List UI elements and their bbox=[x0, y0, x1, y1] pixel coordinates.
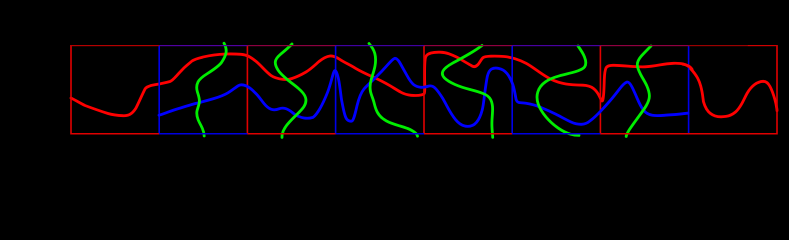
red curve overlay crossing x=688 line bbox=[682, 64, 693, 70]
vertical line x=600 red bbox=[600, 45, 602, 135]
vertical line x=335 blue bbox=[335, 45, 337, 135]
blue signal curve bbox=[159, 58, 688, 126]
vertical line x=71 red bbox=[70, 45, 72, 135]
box borders: bottom segments (bright) bbox=[71, 133, 159, 135]
green stroke 5 bbox=[537, 46, 586, 135]
vertical line x=777 red bbox=[776, 45, 778, 135]
green stroke 4 bbox=[442, 46, 492, 138]
green stroke 1 bbox=[197, 43, 226, 136]
vertical line x=512 blue bbox=[511, 45, 513, 135]
green stroke 3 bbox=[369, 44, 418, 137]
vertical line x=424 red bbox=[423, 45, 425, 135]
green stroke 2 bbox=[275, 44, 306, 137]
vertical line x=159 blue bbox=[158, 45, 160, 135]
box borders: top segments (dark blended) bbox=[71, 45, 159, 46]
vertical line x=247 red bbox=[247, 45, 249, 135]
chart canvas bbox=[0, 0, 789, 171]
red signal curve bbox=[71, 52, 777, 117]
vertical line x=688 blue bbox=[688, 45, 690, 135]
green stroke 6 bbox=[626, 46, 651, 137]
